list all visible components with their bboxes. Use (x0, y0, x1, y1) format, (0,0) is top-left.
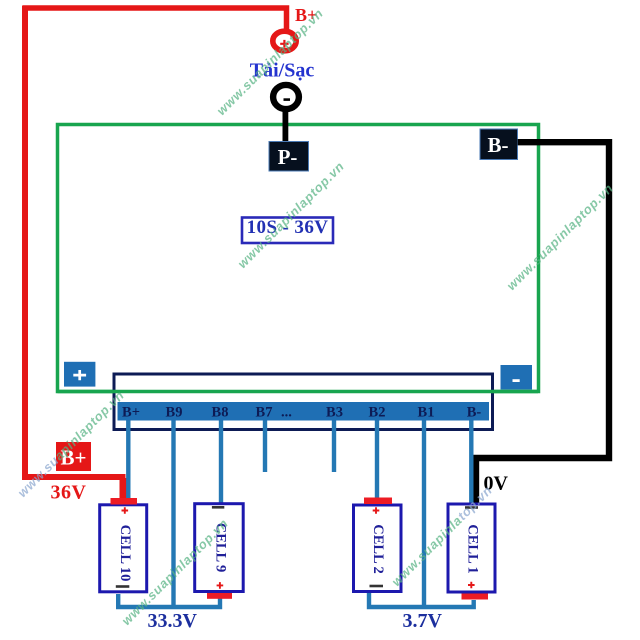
wire cell2 to cell1 (series link) (369, 593, 474, 607)
cell 2 (354, 498, 402, 592)
svg-text:B2: B2 (369, 405, 386, 421)
wire terminal to P- (black) (283, 108, 289, 142)
minus sign in terminal (284, 98, 291, 101)
svg-text:B3: B3 (326, 405, 343, 421)
svg-text:P-: P- (278, 145, 298, 169)
minus pad (blue) (501, 365, 533, 390)
svg-text:CELL 1: CELL 1 (465, 524, 481, 574)
B+ box (red) (56, 442, 91, 471)
svg-text:B8: B8 (212, 405, 229, 421)
plus pad (blue) (64, 362, 95, 387)
cell 9 (195, 504, 244, 599)
svg-text:33.3V: 33.3V (148, 610, 198, 632)
wire B+ drop to cell 10 (red) (120, 478, 130, 500)
sense wire B- (469, 421, 473, 504)
svg-text:www.suapinlaptop.vn: www.suapinlaptop.vn (504, 180, 617, 293)
B- box (480, 129, 518, 160)
P- box (269, 142, 309, 172)
sense wire B+ (126, 421, 130, 500)
sense wire B7 (263, 421, 267, 473)
plus sign in terminal (280, 40, 288, 48)
sense wire B1 (422, 421, 426, 608)
cell 1 (448, 504, 495, 600)
label box 10S - 36V (242, 218, 333, 244)
BMS board outline (green) (58, 125, 539, 392)
wire B+ top (red) (22, 8, 286, 30)
svg-text:36V: 36V (51, 482, 87, 504)
wire B+ left (red main) (25, 6, 123, 479)
svg-text:...: ... (281, 405, 292, 421)
svg-text:3.7V: 3.7V (403, 610, 443, 632)
svg-text:www.suapinlaptop.vn: www.suapinlaptop.vn (235, 158, 348, 271)
svg-text:B7: B7 (256, 405, 273, 421)
svg-text:B+: B+ (122, 405, 140, 421)
sense wire B2 (375, 421, 379, 499)
sense wire B9 (171, 421, 175, 608)
svg-text:B-: B- (488, 133, 509, 157)
svg-text:CELL 2: CELL 2 (370, 524, 386, 574)
sense wire B8 (219, 421, 223, 503)
wire cell10 to cell9 (series link) (118, 594, 220, 607)
svg-text:B-: B- (467, 405, 482, 421)
green bottom edge over connector (58, 390, 539, 394)
svg-text:B9: B9 (166, 405, 183, 421)
balance connector strip (118, 402, 490, 421)
svg-text:CELL 10: CELL 10 (117, 525, 133, 582)
terminal + (red ring) (273, 31, 296, 51)
sense wire B3 (332, 421, 336, 473)
cell 10 (100, 498, 147, 592)
balance connector outline (114, 374, 493, 430)
terminal - (black ring) (273, 85, 299, 109)
wire B- main (black) (476, 142, 609, 502)
svg-text:B1: B1 (418, 405, 435, 421)
